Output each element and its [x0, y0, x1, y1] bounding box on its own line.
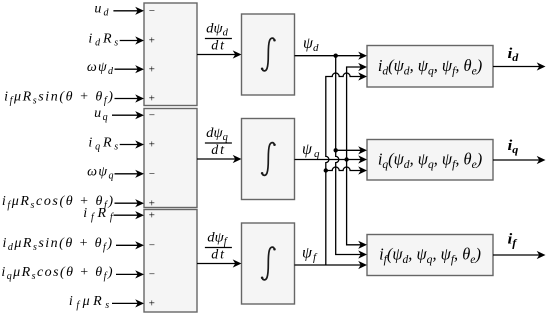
summing block S1 — [144, 3, 197, 106]
function block U2 i_q — [367, 140, 493, 181]
node junction psi_f branch to U2 — [324, 168, 328, 172]
svg-text:−: − — [148, 168, 155, 180]
svg-text:idμRssin(θ + θf): idμRssin(θ + θf) — [2, 236, 113, 253]
wire input u_d — [113, 7, 144, 15]
wire input i_q R_s — [120, 140, 144, 148]
wire U1 output i_d — [493, 62, 546, 70]
integrator block I1 — [242, 14, 295, 95]
wire bus psi_q vertical up to U1 and down to U3 — [347, 67, 361, 245]
wire input i_f mu R_s — [112, 299, 144, 307]
svg-text:+: + — [148, 209, 155, 221]
function block U3 i_f — [367, 235, 493, 276]
wire I3 to U3 psi_f — [295, 261, 368, 269]
integrator block I3 — [242, 223, 295, 304]
svg-text:ifμRssin(θ + θf): ifμRssin(θ + θf) — [4, 89, 114, 106]
svg-text:+: + — [148, 197, 155, 209]
svg-text:+: + — [148, 63, 155, 75]
label fraction dpsi_d/dt — [205, 21, 232, 54]
wire S2 to I2 — [197, 155, 242, 163]
integrator block I2 — [242, 119, 295, 200]
label fraction dpsi_q/dt — [205, 125, 232, 158]
wire psi_f branch to U2 input 3 with hops — [326, 167, 361, 171]
wire U3 output i_f — [493, 251, 546, 259]
wire I1 to U1 psi_d — [295, 52, 368, 60]
svg-text:dt: dt — [211, 248, 226, 263]
wire input omega psi_q — [115, 170, 145, 178]
wire S3 to I3 — [197, 259, 242, 267]
node junction psi_q — [344, 157, 348, 161]
wire S1 to I1 — [197, 50, 242, 58]
wire input i_d R_s — [120, 36, 144, 44]
node junction psi_d branch to U2 — [334, 148, 338, 152]
svg-text:−: − — [148, 5, 155, 17]
summing block S3 — [144, 209, 197, 312]
function block U1 i_d — [367, 46, 493, 88]
summing block S2 — [144, 109, 197, 210]
wire input omega psi_d — [115, 65, 145, 73]
label i_q output — [508, 138, 519, 156]
label fraction dpsi_f/dt — [205, 230, 232, 263]
wire input u_q — [112, 111, 144, 119]
label i_f output — [508, 232, 518, 250]
svg-text:+: + — [148, 93, 155, 105]
wire I2 to U2 psi_q — [295, 155, 368, 163]
wire input i_f R_f — [114, 211, 145, 219]
wire bus psi_f vertical with hop over psi_q line, to U1 input 3 with hops — [326, 73, 361, 265]
wire psi_d branch to U2 input 1 — [336, 146, 367, 154]
svg-text:−: − — [148, 109, 155, 121]
svg-text:−: − — [148, 240, 155, 252]
node junction psi_d — [334, 54, 338, 58]
svg-text:iqμRscos(θ + θf): iqμRscos(θ + θf) — [1, 265, 114, 282]
svg-text:dt: dt — [211, 143, 226, 158]
wire input i_f mu R_s cos — [115, 199, 145, 207]
label i_d output — [508, 46, 519, 64]
svg-text:dt: dt — [211, 39, 226, 54]
wire input i_d mu R_s sin — [116, 241, 144, 249]
svg-text:−: − — [148, 269, 155, 281]
wire bus psi_d vertical with hop over psi_q line — [336, 56, 361, 255]
svg-text:+: + — [148, 298, 155, 310]
svg-text:+: + — [148, 35, 155, 47]
wire input i_q mu R_s cos — [116, 270, 144, 278]
wire input i_f mu R_s sin — [115, 94, 145, 102]
wire U2 output i_q — [493, 156, 546, 164]
svg-text:+: + — [148, 139, 155, 151]
